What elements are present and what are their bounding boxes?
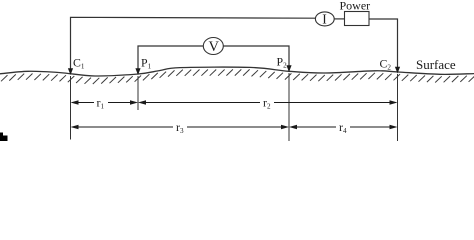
- svg-text:P1: P1: [141, 55, 152, 70]
- power supply box: [345, 12, 370, 26]
- svg-text:C1: C1: [73, 55, 85, 70]
- extension line C2: [397, 74, 399, 141]
- voltmeter V: [203, 38, 223, 55]
- svg-text:I: I: [322, 12, 327, 27]
- ground hatching: [1, 69, 474, 84]
- dimension r3: [72, 126, 288, 128]
- wire power to C2: [369, 19, 398, 72]
- extension line C1: [70, 76, 72, 140]
- surface ground line: [0, 67, 474, 76]
- extension line P2: [288, 73, 290, 141]
- extension line P1: [137, 76, 139, 110]
- corner artifact blob: [0, 133, 8, 142]
- dimension r2: [140, 102, 397, 104]
- svg-text:r3: r3: [176, 120, 184, 135]
- wire I to power: [334, 18, 344, 20]
- svg-text:Power: Power: [340, 0, 371, 13]
- wire top loop C1 to I: [71, 17, 316, 73]
- svg-text:C2: C2: [380, 56, 392, 71]
- svg-text:V: V: [209, 39, 220, 55]
- electrode C1 arrow: [68, 68, 73, 75]
- ammeter I: [315, 12, 334, 26]
- electrode C2 arrow: [395, 67, 400, 74]
- electrode P2 arrow: [286, 65, 291, 72]
- svg-text:P2: P2: [277, 54, 288, 69]
- electrode P1 arrow: [135, 68, 140, 75]
- svg-text:Surface: Surface: [416, 57, 456, 72]
- dimension r1: [72, 102, 137, 104]
- svg-text:r1: r1: [97, 96, 105, 111]
- dimension r4: [291, 126, 397, 128]
- wire inner loop P1 to V: [138, 46, 203, 74]
- svg-text:r2: r2: [263, 96, 271, 111]
- svg-text:r4: r4: [339, 120, 347, 135]
- wire V to P2: [223, 46, 289, 71]
